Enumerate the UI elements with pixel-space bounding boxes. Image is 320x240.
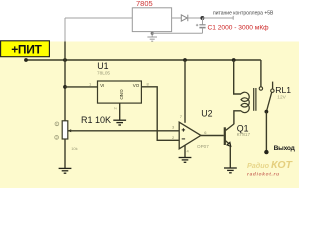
svg-text:R1 10K: R1 10K [81,115,111,125]
svg-text:питание контроллера +5В: питание контроллера +5В [213,11,274,17]
svg-text:U2: U2 [201,108,212,118]
svg-text:VI: VI [100,83,104,88]
svg-text:VO: VO [133,83,140,88]
output terminal dot [264,150,268,154]
pin circle 2 [55,136,59,140]
svg-text:С1 2000 - 3000 мКф: С1 2000 - 3000 мКф [208,25,270,32]
svg-text:12V: 12V [277,94,286,100]
svg-text:Выход: Выход [274,145,296,152]
svg-text:7805: 7805 [136,0,153,8]
wire: tap to U1 VI [65,86,98,88]
junction rail left [24,58,28,62]
wire: rail to coil top [234,60,241,94]
wire: switch to output [265,112,267,151]
junction dot gnd node [151,32,154,35]
wire: Q1 collector to coil [234,111,241,124]
wire: 7805 input vertical (white area) [64,18,66,42]
wire: pot bottom to ground [64,139,66,168]
junction rail x65 [63,58,67,62]
net label +ПИТ [1,41,50,57]
svg-text:+ПИТ: +ПИТ [11,43,42,57]
background white [0,0,299,188]
wire: gnd node to C1 minus [152,32,202,34]
wire: +5V to terminal [202,17,233,19]
junction rail x233 [232,58,236,62]
wire: pot wiper to op-amp +in [68,130,180,132]
yellow highlight region [0,42,299,189]
wire: U1 gnd stem [119,103,121,120]
svg-text:КТ817: КТ817 [237,132,251,137]
regulator 7805 box [132,8,171,32]
svg-text:radiokot.ru: radiokot.ru [247,171,280,177]
ground (U2) [179,158,192,163]
transistor Q1 [225,124,234,146]
relay core [254,88,256,111]
wire: 7805 output to diode [172,17,182,19]
diode D1 [181,15,188,22]
wire: 7805 input horizontal [65,17,132,19]
regulator U1 78L05 box [98,81,142,103]
svg-text:RL1: RL1 [275,85,291,95]
junction rail x183 [183,58,187,62]
wire: op-amp V+ [184,60,186,123]
svg-text:2: 2 [56,136,58,140]
wire: Q1 emitter to ground [229,147,231,168]
wire: +12V rail [26,59,261,61]
wire: 7805 gnd stem [151,32,153,37]
junction node +5V [200,16,204,20]
svg-text:OP07: OP07 [197,144,209,149]
ground (7805) [147,37,157,41]
wire: diode to +5V node [188,17,203,19]
junction U1 tap [63,85,67,89]
svg-text:78L05: 78L05 [97,70,110,75]
potentiometer R1 [62,121,71,139]
ground (R1) [59,168,72,173]
pin circle 1 [55,122,59,126]
svg-text:GND: GND [119,89,124,100]
ground (Q1) [224,168,237,173]
wire: op-amp V- to ground [184,145,186,157]
junction switch out [265,110,269,114]
ground (U1) [113,120,126,125]
relay coil RL1 [241,92,249,112]
relay switch RL1 [259,82,274,111]
op-amp U2 [179,122,201,149]
wire: rail right corner to switch common [260,60,262,87]
svg-text:1: 1 [56,122,58,126]
svg-text:Радио КОТ: Радио КОТ [247,159,293,171]
wire: op-amp out to Q1 base [201,135,224,137]
capacitor C1 [196,18,206,33]
terminal tick [232,16,234,20]
wire: left vertical (rail to pot) [64,42,66,121]
wire: U1 VO out [141,87,179,141]
svg-text:10k: 10k [71,146,77,151]
